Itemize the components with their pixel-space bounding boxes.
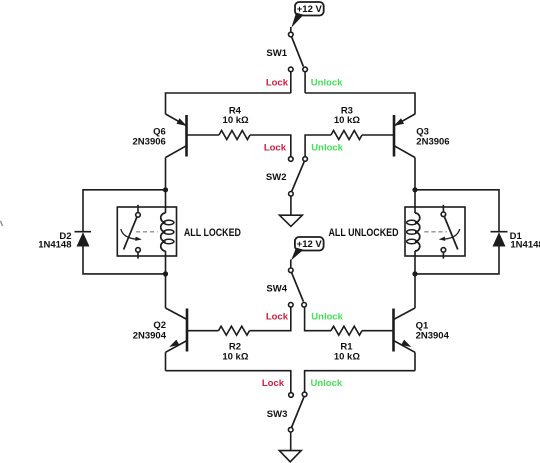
node D (right rail bottom junction) — [412, 271, 417, 276]
wire: SW1 Lock contact down to top bus — [290, 72, 292, 93]
transistor Q3 — [392, 114, 415, 158]
relay K2 dashed link — [136, 231, 158, 233]
stray edge mark — [1, 221, 3, 226]
node A (left rail top junction) — [163, 187, 168, 192]
switch SW2 — [289, 157, 308, 196]
wire: R3 to SW2 Unlock contact — [305, 135, 331, 157]
wire: P1 to SW1 common — [290, 27, 292, 32]
wire: node B down to Q2 collector — [165, 274, 167, 308]
svg-text:Lock: Lock — [266, 77, 289, 88]
diode D1 — [491, 232, 508, 247]
wire: Q2 emitter to bottom bus — [165, 352, 167, 370]
svg-text:2N3904: 2N3904 — [416, 330, 450, 341]
relay K1 box (ALL UNLOCKED) — [405, 207, 465, 256]
node B (left rail bottom junction) — [163, 271, 168, 276]
svg-text:2N3906: 2N3906 — [133, 136, 166, 147]
node C (right rail top junction) — [412, 187, 417, 192]
relay K1 coil — [407, 213, 420, 251]
wire: Q3 base to R3 — [362, 134, 394, 136]
svg-text:SW1: SW1 — [266, 48, 287, 59]
wire: SW2 common to ground — [290, 196, 292, 215]
wire: Q6 base to R4 — [187, 134, 220, 136]
svg-text:Unlock: Unlock — [311, 311, 343, 322]
svg-text:1N4148: 1N4148 — [38, 240, 71, 251]
wire: relay K2 coil out to node B — [165, 251, 167, 274]
relay K2 contact switch — [121, 205, 142, 259]
wire: node A into relay coil K2 — [165, 190, 167, 213]
resistor R2 — [219, 326, 250, 335]
svg-text:Unlock: Unlock — [311, 77, 343, 88]
switch SW3 — [288, 392, 307, 432]
relay K2 box (ALL LOCKED) — [117, 207, 176, 256]
svg-text:SW2: SW2 — [266, 172, 287, 183]
wire: bottom bus left — [166, 371, 291, 393]
svg-text:Lock: Lock — [264, 143, 287, 154]
resistor R4 — [219, 131, 250, 140]
svg-text:1N4148: 1N4148 — [510, 240, 540, 251]
wire: Q1 base to R1 — [362, 330, 394, 332]
relay K1 contact switch — [438, 205, 459, 259]
switch SW1 — [289, 32, 308, 71]
svg-text:Unlock: Unlock — [311, 143, 343, 154]
resistor R3 — [331, 131, 362, 140]
wire: D1 to node D — [415, 247, 499, 274]
svg-text:2N3906: 2N3906 — [416, 136, 449, 147]
wire: top bus left + down to Q6 emitter — [166, 93, 291, 114]
wire: Q6 collector rail to node A — [165, 158, 167, 191]
wire: Q3 collector rail to node C — [414, 158, 416, 191]
wire: node C to D1 — [415, 190, 499, 232]
relay K2 coil — [161, 213, 174, 251]
transistor Q1 — [394, 308, 416, 352]
diode D2 — [75, 232, 92, 247]
wire: R2 to SW4 Lock contact — [250, 307, 291, 331]
power +12V P2 (middle) — [291, 237, 324, 260]
wire: P2 to SW4 common — [290, 260, 292, 269]
svg-text:ALL UNLOCKED: ALL UNLOCKED — [329, 227, 399, 239]
svg-text:10 kΩ: 10 kΩ — [223, 115, 249, 126]
svg-text:10 kΩ: 10 kΩ — [334, 352, 360, 363]
svg-text:10 kΩ: 10 kΩ — [222, 352, 248, 363]
wire: top bus right + down to Q3 emitter — [305, 93, 415, 114]
transistor Q6 — [166, 114, 189, 158]
switch SW4 — [289, 268, 307, 307]
svg-text:SW4: SW4 — [266, 284, 287, 295]
wire: node A to D2 — [83, 190, 166, 232]
wire: node D down to Q1 collector — [414, 274, 416, 308]
relay K1 dashed link — [424, 231, 446, 233]
svg-text:ALL LOCKED: ALL LOCKED — [184, 227, 241, 239]
svg-text:10 kΩ: 10 kΩ — [334, 115, 360, 126]
wire: R4 to SW2 Lock contact — [250, 135, 291, 157]
svg-text:+12 V: +12 V — [297, 4, 323, 15]
wire: relay K1 coil out to node D — [414, 251, 416, 274]
wire: R1 to SW4 Unlock contact — [305, 307, 331, 331]
svg-text:Q2: Q2 — [153, 320, 166, 331]
svg-text:Lock: Lock — [262, 378, 285, 389]
svg-text:+12 V: +12 V — [297, 239, 323, 250]
wire: D2 to node B — [83, 247, 166, 274]
wire: Q1 emitter to bottom bus — [414, 352, 416, 370]
wire: SW1 Unlock contact down to top bus — [304, 72, 306, 93]
power +12V P1 (top) — [291, 2, 323, 28]
wire: bottom bus right — [305, 371, 415, 392]
svg-text:SW3: SW3 — [267, 409, 288, 420]
wire: node C into relay coil K1 — [414, 190, 416, 213]
wire: Q2 base to R2 — [187, 330, 219, 332]
svg-text:Lock: Lock — [266, 311, 289, 322]
svg-text:Unlock: Unlock — [311, 378, 343, 389]
svg-text:2N3904: 2N3904 — [133, 330, 167, 341]
transistor Q2 — [166, 308, 188, 352]
wire: SW3 common to ground — [290, 432, 292, 451]
ground (under SW2) — [280, 215, 303, 226]
ground (under SW3) — [279, 451, 301, 462]
resistor R1 — [331, 326, 362, 335]
